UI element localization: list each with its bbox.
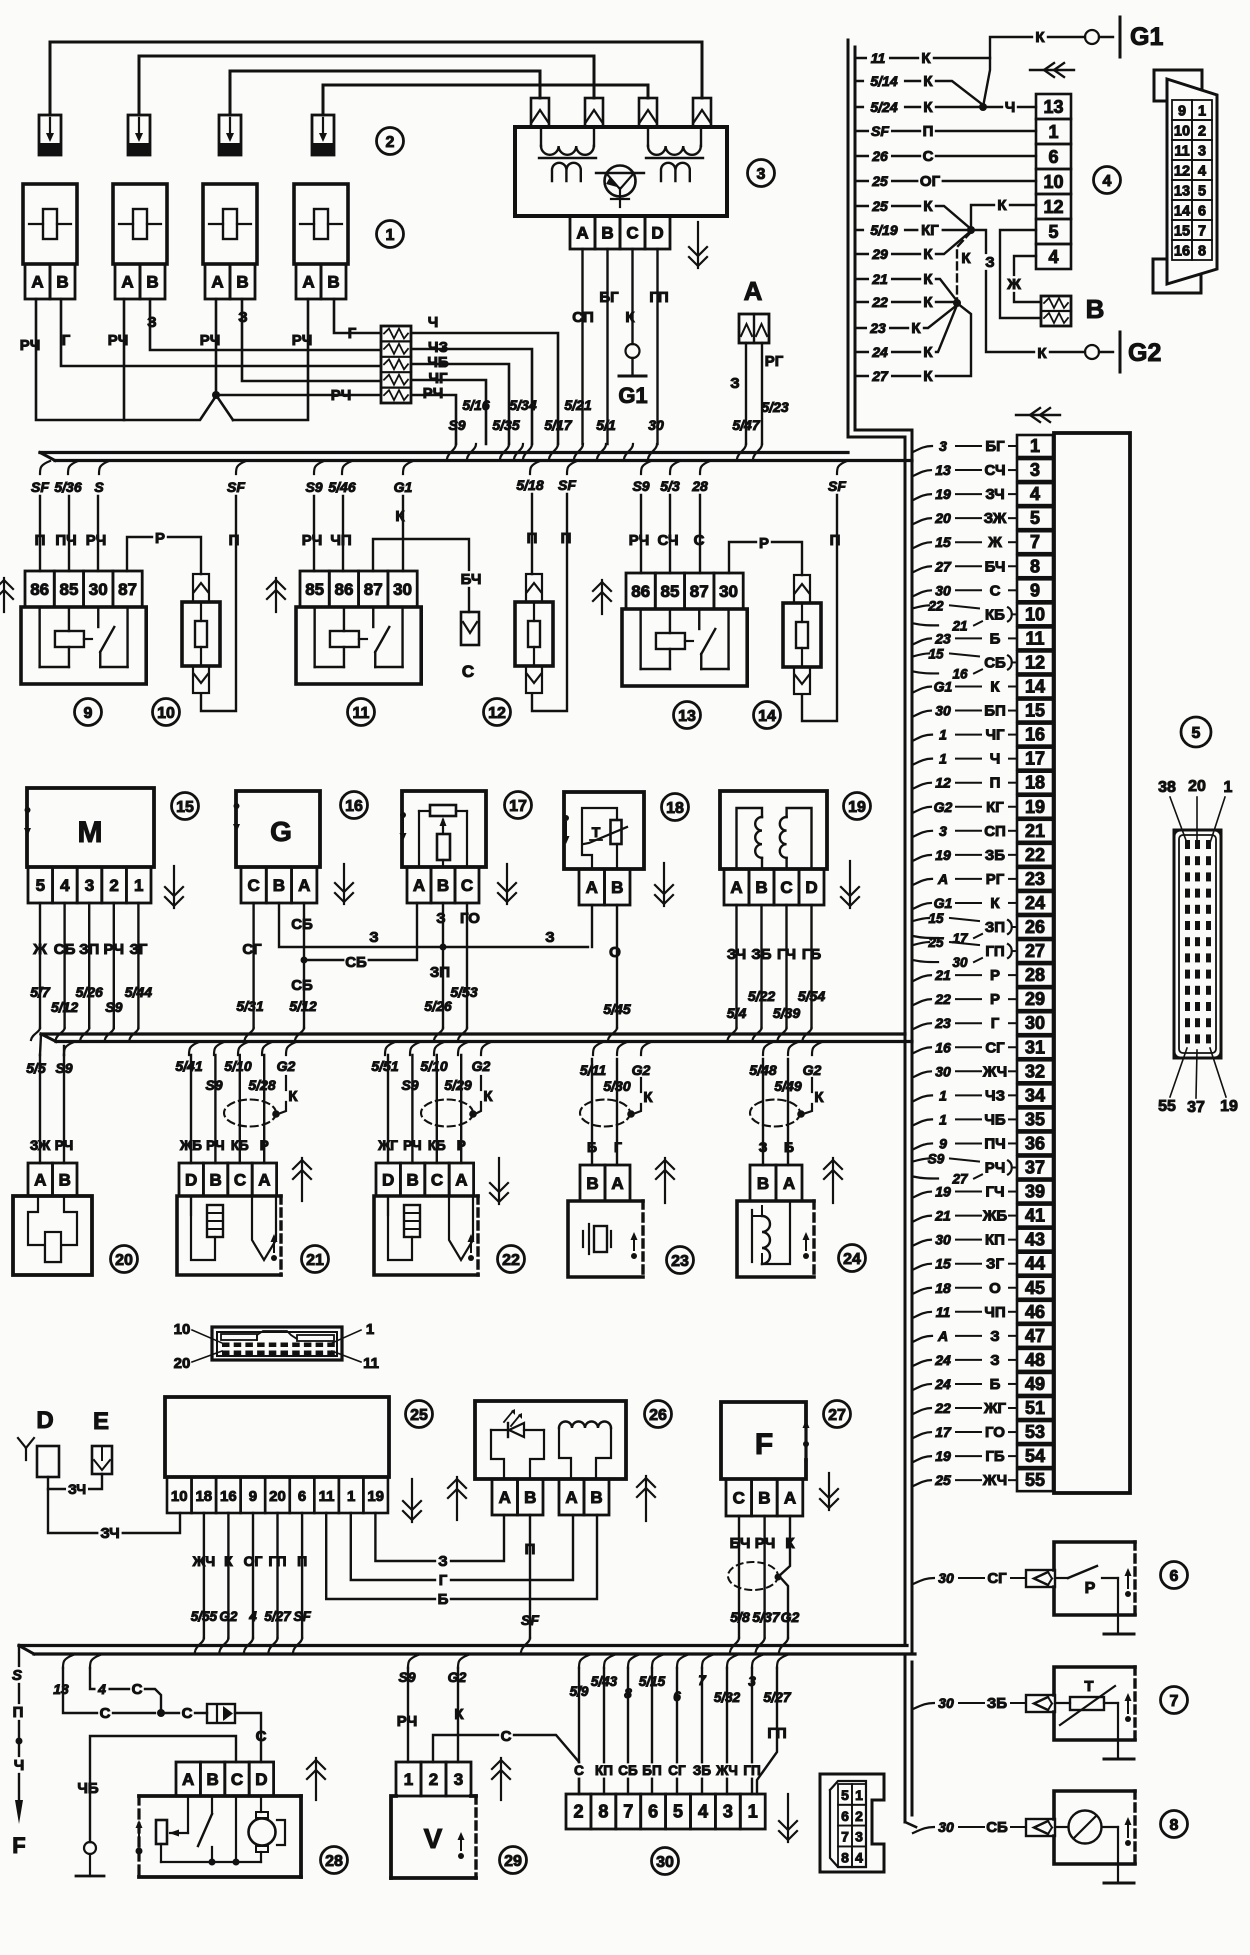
svg-text:ГЧ: ГЧ <box>777 946 796 963</box>
stub G2 below middle band <box>812 1042 822 1055</box>
wire ОГ from 25 to 4 <box>252 1513 254 1638</box>
svg-text:СБ: СБ <box>54 941 76 958</box>
label item 12 circle <box>484 699 511 726</box>
svg-text:A: A <box>302 273 314 292</box>
svg-text:SF: SF <box>828 478 846 494</box>
svg-text:7: 7 <box>1030 532 1040 552</box>
svg-text:9: 9 <box>1178 104 1186 120</box>
wire БП to connector30 (5/15) <box>652 1655 662 1668</box>
svg-text:К: К <box>483 1088 493 1105</box>
svg-text:22: 22 <box>934 991 951 1007</box>
svg-text:B: B <box>146 273 158 292</box>
wire К from module C to G1 spark gap <box>631 249 633 344</box>
svg-text:19: 19 <box>1025 797 1045 817</box>
wire injector1 B (Г) to row3 <box>61 299 381 366</box>
svg-text:5/10: 5/10 <box>224 1058 251 1074</box>
relay 9 <box>25 571 54 607</box>
svg-text:С: С <box>462 662 474 681</box>
svg-text:21: 21 <box>871 271 888 287</box>
wire К down to G2 <box>971 230 1085 352</box>
svg-text:A: A <box>565 1488 577 1507</box>
svg-text:З: З <box>759 1139 768 1155</box>
svg-text:15: 15 <box>928 646 944 661</box>
svg-text:24: 24 <box>871 344 888 360</box>
wire Б from 25.11 to 26 <box>326 1513 597 1599</box>
svg-text:44: 44 <box>1025 1254 1045 1274</box>
svg-text:B: B <box>209 1171 221 1190</box>
wire К G2 to shield 21 <box>285 1076 287 1090</box>
svg-text:С: С <box>100 1705 111 1722</box>
svg-text:С: С <box>182 1705 193 1722</box>
component C (diode) <box>461 612 479 645</box>
wire П from 26 to SF <box>529 1515 531 1638</box>
svg-text:6: 6 <box>298 1488 306 1505</box>
label item 28 circle <box>321 1847 348 1874</box>
wire ЗБ from 19 to 5/22 <box>760 905 762 1028</box>
injector 2 (item 1) <box>113 184 167 264</box>
svg-text:5/23: 5/23 <box>761 399 788 415</box>
svg-text:87: 87 <box>118 580 137 599</box>
svg-text:Ч: Ч <box>990 751 1001 768</box>
stub 4 below bottom band <box>90 1655 100 1668</box>
svg-text:П: П <box>297 1553 307 1569</box>
svg-text:4: 4 <box>60 876 70 895</box>
svg-text:Г: Г <box>614 1139 622 1155</box>
svg-text:10: 10 <box>1025 604 1045 624</box>
stub SF below band <box>837 461 847 474</box>
svg-text:Р: Р <box>990 991 1000 1008</box>
spark plug 3 (item 2) <box>219 115 241 155</box>
svg-text:3: 3 <box>855 1829 863 1845</box>
wire РГ from A to 5/23 <box>761 343 763 444</box>
wire РЧ from resistor block <box>411 395 456 444</box>
wire ЧЗ from resistor block <box>411 349 532 444</box>
vehicle speed sensor V (item 29) <box>396 1762 421 1796</box>
wire С diode to 28.D <box>235 1713 261 1762</box>
svg-text:5/19: 5/19 <box>870 222 897 238</box>
svg-text:24: 24 <box>1025 893 1045 913</box>
svg-text:СБ: СБ <box>291 977 313 994</box>
svg-text:ЗГ: ЗГ <box>129 941 147 958</box>
svg-text:30: 30 <box>938 1570 954 1586</box>
svg-text:1: 1 <box>366 1321 374 1338</box>
svg-text:ГП: ГП <box>269 1553 287 1569</box>
svg-text:55: 55 <box>1025 1470 1045 1490</box>
svg-text:D: D <box>382 1171 394 1190</box>
svg-text:РГ: РГ <box>765 353 784 370</box>
svg-text:ЗБ: ЗБ <box>987 1695 1007 1712</box>
ECU pin 8 wire 27-БЧ <box>1017 555 1053 577</box>
ECU pin 23 wire A-РГ <box>1017 868 1053 890</box>
svg-text:27: 27 <box>1025 941 1045 961</box>
svg-text:СБ: СБ <box>984 654 1006 671</box>
relay 11 <box>300 571 329 607</box>
plug symbol comp 8 <box>1026 1819 1055 1836</box>
svg-text:B: B <box>611 878 623 897</box>
wire 25-ОГ to pin 10 <box>855 180 1036 182</box>
svg-text:13: 13 <box>53 1681 69 1697</box>
svg-text:К: К <box>454 1706 464 1723</box>
ECU pin 17 wire 1-Ч <box>1017 748 1053 770</box>
svg-text:РГ: РГ <box>986 871 1005 888</box>
svg-text:БГ: БГ <box>985 438 1005 455</box>
wire 23-К <box>855 305 957 328</box>
coil in item 26 <box>559 1422 611 1428</box>
svg-text:4: 4 <box>698 1802 708 1822</box>
stub S9 below middle band <box>64 1042 74 1055</box>
svg-text:5/45: 5/45 <box>603 1001 630 1017</box>
svg-text:35: 35 <box>1025 1109 1045 1129</box>
svg-text:5/22: 5/22 <box>748 988 775 1004</box>
svg-text:30: 30 <box>1025 1013 1045 1033</box>
svg-text:M: M <box>78 816 103 849</box>
connector 30 cell row <box>566 1794 591 1829</box>
ground arrow after 26 <box>645 1476 647 1521</box>
wire З to 24.B <box>762 1059 764 1165</box>
svg-text:5/7: 5/7 <box>30 984 51 1000</box>
svg-text:S9: S9 <box>305 479 322 495</box>
svg-text:15: 15 <box>1174 224 1190 240</box>
wire 21-К <box>855 279 957 301</box>
svg-text:12: 12 <box>1174 164 1190 180</box>
wire ЖЧ to connector30 (5/32) <box>727 1655 737 1668</box>
svg-text:C: C <box>780 878 792 897</box>
ECU pin 43 wire 30-КП <box>1017 1229 1053 1251</box>
connector G1 spark tester point <box>626 344 640 358</box>
svg-text:22: 22 <box>927 598 944 613</box>
svg-text:Р: Р <box>990 967 1000 984</box>
connector 4 cell column <box>1036 94 1071 119</box>
CO potentiometer (item 24) <box>750 1165 776 1201</box>
svg-text:G2: G2 <box>934 799 953 815</box>
wire Б to 23.B <box>591 1059 593 1165</box>
stub G2 to 29.3 <box>458 1655 468 1668</box>
knock sensor (item 23) <box>580 1165 605 1201</box>
svg-text:З: З <box>730 375 739 392</box>
svg-text:15: 15 <box>176 799 194 816</box>
wire 26-С to pin 6 <box>855 155 1036 157</box>
ECU pin 7 wire 15-Ж <box>1017 531 1053 553</box>
wire 5/5 left edge down <box>40 1034 41 1055</box>
junction СБ <box>301 957 308 964</box>
wire СБ from M to 5/12 <box>63 903 65 1028</box>
ignition coil secondary right <box>661 163 690 181</box>
ECU pin 41 wire 21-ЖБ <box>1017 1205 1053 1227</box>
wire ЧБ ground to 28.C <box>90 1736 236 1842</box>
ground for comp 8 <box>1117 1827 1119 1883</box>
svg-text:СБ: СБ <box>345 954 367 971</box>
svg-text:C: C <box>248 876 260 895</box>
wire СБ spur to 17.A <box>304 903 417 960</box>
svg-text:B: B <box>601 224 613 243</box>
svg-text:10: 10 <box>1174 124 1190 140</box>
wire 29-К <box>855 231 971 254</box>
shield ellipse item 22 <box>421 1100 473 1127</box>
svg-text:G2: G2 <box>632 1062 651 1078</box>
svg-text:B: B <box>524 1488 536 1507</box>
stub 5/36 below band <box>68 461 78 474</box>
wire РЧ to relay9 pin 30 <box>97 496 99 571</box>
svg-text:5/5: 5/5 <box>26 1060 46 1076</box>
svg-text:21: 21 <box>306 1252 324 1269</box>
svg-text:5/17: 5/17 <box>544 417 572 433</box>
svg-text:23: 23 <box>934 630 951 646</box>
label item 15 circle <box>172 793 199 820</box>
wire 4-С <box>90 1668 161 1713</box>
stub 5/49 below middle band <box>788 1042 798 1055</box>
shield ellipse item 21 <box>224 1100 276 1127</box>
camshaft sensor G (item 16) <box>236 791 320 867</box>
wire ГП from module D to 30 <box>656 249 658 444</box>
svg-text:7: 7 <box>841 1829 849 1845</box>
ignition coil primary left <box>540 129 542 146</box>
fuse 12 <box>515 602 553 666</box>
svg-text:15: 15 <box>928 911 944 926</box>
svg-text:5/15: 5/15 <box>639 1674 666 1689</box>
svg-text:ПЧ: ПЧ <box>984 1135 1005 1152</box>
svg-text:4: 4 <box>1030 484 1040 504</box>
svg-text:1: 1 <box>939 751 947 767</box>
svg-text:ЗП: ЗП <box>985 919 1005 936</box>
svg-text:24: 24 <box>843 1251 861 1268</box>
ECU pin 37 wire S9-РЧ <box>1017 1157 1053 1179</box>
output transistor in module 3 <box>605 166 636 197</box>
harness bus to connector 4 <box>847 40 850 437</box>
svg-text:СБ: СБ <box>618 1763 638 1778</box>
svg-text:A: A <box>586 878 598 897</box>
svg-text:5/8: 5/8 <box>730 1609 750 1625</box>
wire fuse12 top to 5/18 <box>531 494 533 574</box>
wire Р relay9 87 to fuse 10 <box>127 537 201 574</box>
ECU pin 26 wire 15-ЗП <box>1017 916 1053 938</box>
svg-text:2: 2 <box>573 1802 583 1822</box>
svg-text:8: 8 <box>841 1849 849 1865</box>
svg-text:СБ: СБ <box>291 916 313 933</box>
svg-text:3: 3 <box>748 1674 756 1689</box>
svg-text:Р: Р <box>155 530 165 547</box>
wire РЧ to item 21 <box>214 1055 216 1163</box>
svg-text:СП: СП <box>984 823 1006 840</box>
svg-text:5/27: 5/27 <box>264 1609 292 1624</box>
svg-text:S9: S9 <box>105 999 122 1015</box>
svg-text:5/3: 5/3 <box>660 478 680 494</box>
ground arrow 2 after 25 <box>456 1477 458 1520</box>
svg-text:5/12: 5/12 <box>51 999 78 1015</box>
ground arrow after 22 <box>498 1158 500 1204</box>
svg-text:G2: G2 <box>219 1609 238 1624</box>
ECU pin 32 wire 30-ЖЧ <box>1017 1060 1053 1082</box>
wire Б to 24.A <box>787 1059 789 1165</box>
svg-text:5: 5 <box>1192 725 1201 742</box>
ECU pin 48 wire 24-З <box>1017 1349 1053 1371</box>
wire Г from 25.1 to 26 <box>351 1513 573 1580</box>
wire К from 27.A to G2 <box>779 1516 790 1638</box>
component 6 box <box>1054 1542 1135 1570</box>
label item 6 circle <box>1161 1562 1188 1589</box>
svg-text:22: 22 <box>934 1400 951 1416</box>
svg-text:87: 87 <box>364 580 383 599</box>
svg-text:К: К <box>625 309 635 326</box>
svg-text:10: 10 <box>174 1321 191 1338</box>
svg-text:Ж: Ж <box>1006 276 1021 293</box>
svg-text:5/36: 5/36 <box>54 479 81 495</box>
svg-text:СГ: СГ <box>985 1039 1005 1056</box>
svg-text:B: B <box>236 273 248 292</box>
svg-text:SF: SF <box>558 477 576 493</box>
svg-text:ЖГ: ЖГ <box>377 1138 398 1153</box>
wire БГ from module B to 5/1 <box>606 249 608 444</box>
svg-text:30: 30 <box>935 703 951 719</box>
wire injector2 A (РЧ) <box>123 299 126 420</box>
svg-text:К: К <box>224 1553 233 1569</box>
wire HV lead cylinder 2 <box>139 56 594 115</box>
svg-text:К: К <box>1037 345 1047 362</box>
svg-text:A: A <box>31 273 43 292</box>
svg-text:5/28: 5/28 <box>248 1077 275 1093</box>
svg-text:23: 23 <box>934 1015 951 1031</box>
wire 30-СГ to component 6 <box>913 1578 934 1584</box>
svg-text:5/39: 5/39 <box>773 1005 800 1021</box>
svg-text:РЧ: РЧ <box>104 941 125 958</box>
svg-text:5/46: 5/46 <box>328 479 355 495</box>
svg-text:V: V <box>424 1823 443 1854</box>
svg-text:К: К <box>923 99 933 116</box>
svg-text:5/26: 5/26 <box>424 998 451 1014</box>
svg-text:A: A <box>413 876 425 895</box>
svg-text:К: К <box>923 198 933 215</box>
plug symbol comp 6 <box>1026 1570 1055 1587</box>
wire ПЧ to relay9 pin 85 <box>68 496 70 571</box>
svg-text:5/47: 5/47 <box>732 417 760 433</box>
wire ЖБ to item 21 <box>190 1055 192 1163</box>
svg-text:КБ: КБ <box>985 606 1005 623</box>
ECU pin 1 wire 3-БГ <box>1017 435 1053 457</box>
svg-text:16: 16 <box>1025 725 1045 745</box>
svg-text:ОГ: ОГ <box>244 1553 263 1569</box>
svg-text:К: К <box>923 271 933 288</box>
svg-text:5/32: 5/32 <box>714 1690 741 1705</box>
svg-text:ЗП: ЗП <box>430 964 450 981</box>
svg-text:29: 29 <box>1025 989 1045 1009</box>
svg-text:5/55: 5/55 <box>191 1609 218 1624</box>
svg-text:16: 16 <box>1174 244 1190 260</box>
wire СГ from G.C to 5/31 <box>252 903 254 1028</box>
svg-text:Б: Б <box>438 1591 449 1608</box>
svg-text:З: З <box>369 929 378 946</box>
injector 1 (item 1) <box>23 184 77 264</box>
ECU pin 11 wire 23-Б <box>1017 627 1053 649</box>
ECU pin 9 wire 30-С <box>1017 579 1053 601</box>
svg-text:ЖБ: ЖБ <box>179 1138 202 1153</box>
wire HV lead cylinder 4 <box>323 85 648 115</box>
stub SF below band <box>236 461 246 474</box>
svg-text:П: П <box>525 1541 536 1558</box>
label item 21 circle <box>302 1246 329 1273</box>
svg-text:5/1: 5/1 <box>596 417 616 433</box>
svg-text:51: 51 <box>1025 1398 1045 1418</box>
svg-text:5/44: 5/44 <box>125 984 152 1000</box>
svg-text:ЖГ: ЖГ <box>983 1400 1007 1417</box>
diode check valve symbol <box>207 1704 235 1723</box>
svg-text:1: 1 <box>347 1488 355 1505</box>
svg-text:1: 1 <box>748 1802 758 1822</box>
wire 27-К <box>855 303 971 376</box>
svg-text:8: 8 <box>624 1686 632 1701</box>
svg-text:24: 24 <box>934 1376 951 1392</box>
svg-text:C: C <box>234 1171 246 1190</box>
svg-text:37: 37 <box>1025 1158 1045 1178</box>
svg-text:13: 13 <box>678 708 696 725</box>
svg-text:БП: БП <box>984 703 1006 720</box>
svg-text:30: 30 <box>393 580 412 599</box>
svg-text:5: 5 <box>673 1802 683 1822</box>
svg-text:ЗЧ: ЗЧ <box>985 486 1004 503</box>
label item 17 circle <box>505 792 532 819</box>
ECU pin 18 wire 12-П <box>1017 772 1053 794</box>
svg-text:Р: Р <box>457 1138 466 1153</box>
svg-text:СБ: СБ <box>986 1819 1008 1836</box>
svg-text:24: 24 <box>934 1352 951 1368</box>
svg-text:B: B <box>590 1488 602 1507</box>
svg-text:25: 25 <box>927 935 944 950</box>
ECU pin 44 wire 15-ЗГ <box>1017 1253 1053 1275</box>
stub 5/28 below middle band <box>262 1042 272 1055</box>
svg-text:СГ: СГ <box>987 1570 1007 1587</box>
svg-text:B: B <box>755 878 767 897</box>
svg-text:32: 32 <box>1025 1061 1045 1081</box>
svg-text:ЧБ: ЧБ <box>984 1111 1006 1128</box>
harness band bottom <box>19 1644 907 1647</box>
svg-text:S9: S9 <box>632 478 649 494</box>
svg-text:ЗЧ: ЗЧ <box>100 1525 119 1542</box>
svg-text:5/41: 5/41 <box>175 1058 202 1074</box>
svg-text:ЧБ: ЧБ <box>77 1780 99 1797</box>
wire injector4 B (Г) to row1 <box>334 299 381 333</box>
svg-text:30: 30 <box>938 1695 954 1711</box>
ground arrow item 19 <box>849 861 851 908</box>
svg-text:12: 12 <box>1025 652 1045 672</box>
svg-text:D: D <box>185 1171 197 1190</box>
injector 4 (item 1) <box>294 184 348 264</box>
svg-text:5/10: 5/10 <box>420 1058 447 1074</box>
svg-text:Г: Г <box>991 1015 1000 1032</box>
ECU pin 54 wire 19-ГБ <box>1017 1445 1053 1467</box>
svg-text:Б: Б <box>587 1139 597 1155</box>
svg-text:28: 28 <box>691 478 708 494</box>
svg-text:16: 16 <box>952 666 968 681</box>
wire fuse14 bottom to П/SF <box>802 495 837 721</box>
svg-text:S9: S9 <box>928 1152 945 1167</box>
svg-text:18: 18 <box>1025 773 1045 793</box>
svg-text:28: 28 <box>1025 965 1045 985</box>
coolant temperature sensor (item 18) <box>564 792 644 869</box>
svg-text:49: 49 <box>1025 1374 1045 1394</box>
ignition module (item 3) <box>515 127 727 216</box>
svg-text:G1: G1 <box>618 383 647 408</box>
svg-text:11: 11 <box>1174 144 1189 160</box>
svg-text:B: B <box>273 876 285 895</box>
svg-text:18: 18 <box>666 800 684 817</box>
ECU pin 24 wire G1-К <box>1017 892 1053 914</box>
spark plug 1 (item 2) <box>39 115 61 155</box>
svg-text:2: 2 <box>386 134 395 151</box>
svg-text:ЗЧ: ЗЧ <box>68 1481 86 1497</box>
svg-text:3: 3 <box>85 876 94 895</box>
svg-text:ГП: ГП <box>985 943 1004 960</box>
ECU pin 47 wire A-З <box>1017 1325 1053 1347</box>
stub 5/41 below middle band <box>189 1042 199 1055</box>
svg-text:9: 9 <box>249 1488 257 1505</box>
